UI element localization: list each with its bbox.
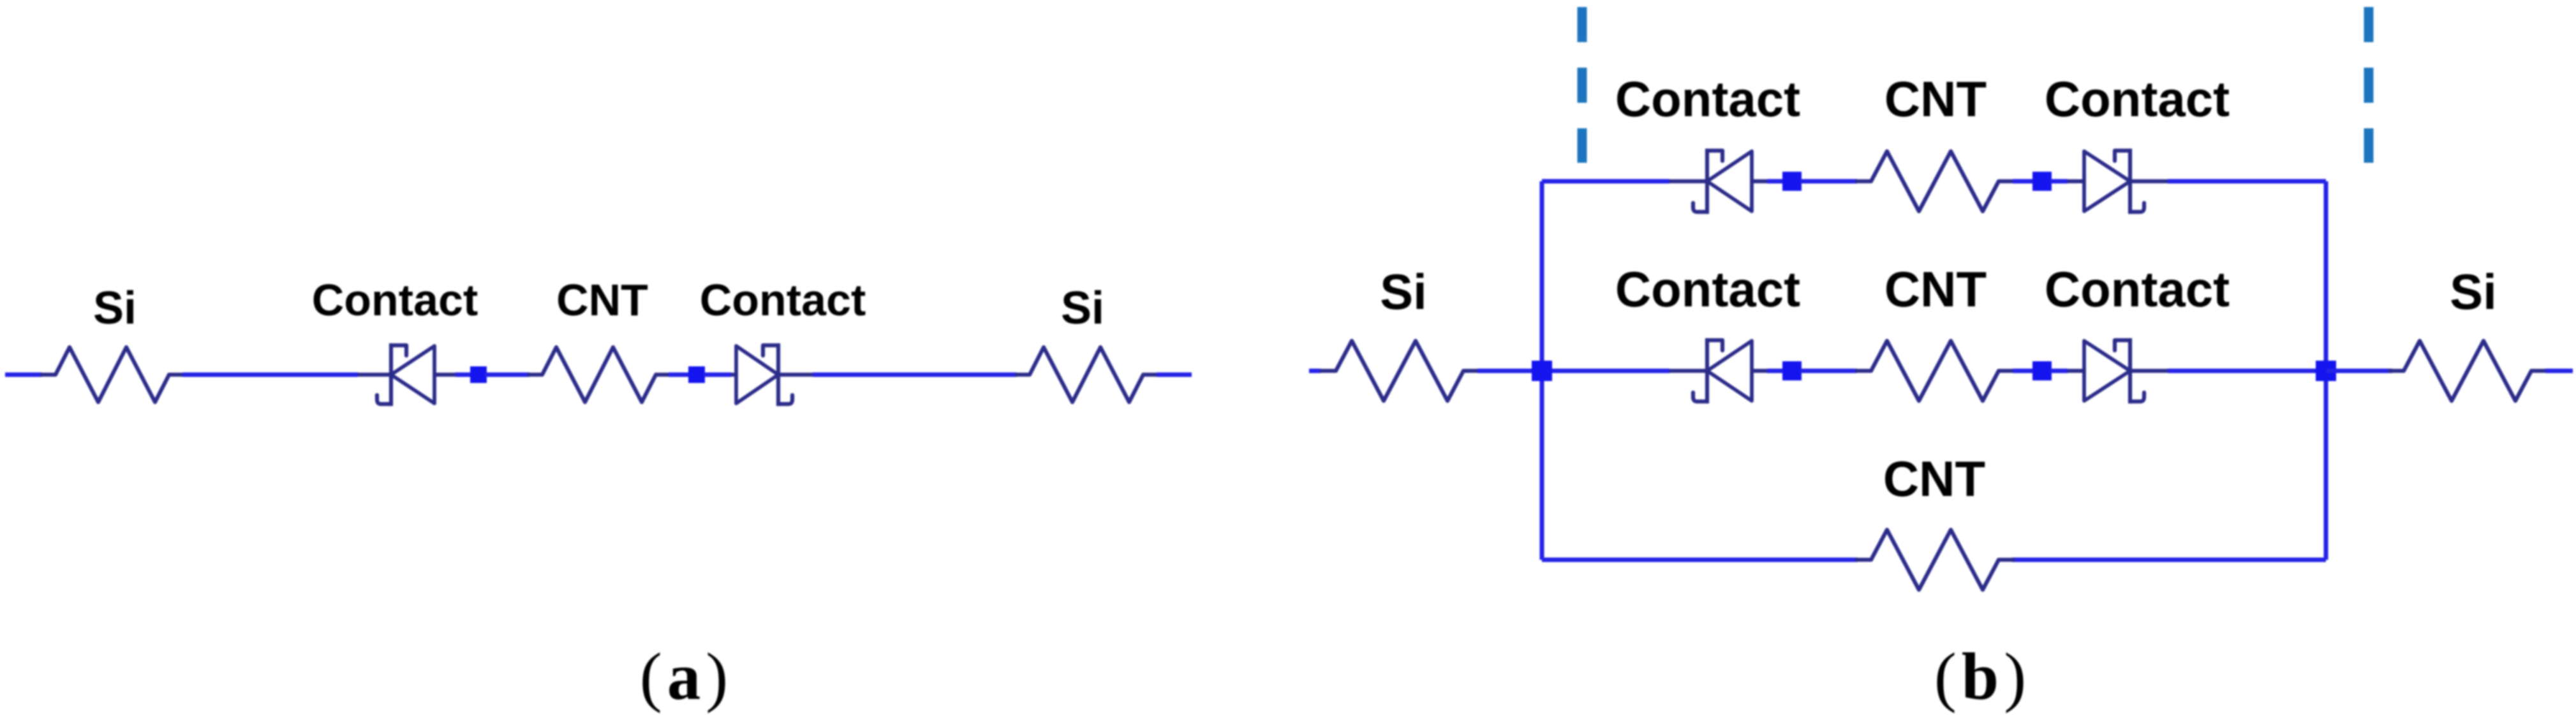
label Si: [93, 283, 137, 334]
label CNT: [1883, 451, 1985, 507]
schottky diode Contact (a) right: [731, 345, 813, 404]
resistor CNT (b) top: [1857, 151, 2013, 211]
label Si: [1061, 283, 1104, 334]
svg-text:(a): (a): [640, 639, 733, 714]
label Contact: [1615, 261, 1800, 317]
node junction left: [1532, 361, 1552, 381]
label Contact: [312, 275, 478, 325]
schottky diode Contact (b) middle-right: [2068, 340, 2168, 401]
wire: [485, 373, 529, 377]
dashed boundary line right: [2364, 7, 2374, 163]
wire bottom branch: [1542, 558, 1858, 562]
label Si: [2450, 264, 2497, 320]
node: [2032, 172, 2052, 191]
wire: [2050, 369, 2068, 373]
resistor Si (a) right: [1017, 347, 1156, 402]
label Contact: [700, 275, 866, 325]
wire: [1767, 179, 1784, 184]
svg-text:Contact: Contact: [700, 275, 866, 325]
wire: [2326, 369, 2392, 373]
svg-text:Contact: Contact: [2045, 71, 2230, 127]
label Si: [1380, 264, 1427, 320]
svg-text:Contact: Contact: [1615, 261, 1800, 317]
svg-text:Si: Si: [1061, 283, 1104, 334]
svg-text:Si: Si: [93, 283, 137, 334]
schottky diode Contact (b) middle-left: [1669, 340, 1767, 401]
wire: [455, 373, 472, 377]
resistor CNT (b) bottom: [1857, 530, 2013, 590]
wire: [669, 373, 690, 377]
svg-text:Si: Si: [1380, 264, 1427, 320]
wire: [2168, 179, 2326, 184]
node junction: [688, 366, 705, 383]
svg-text:Contact: Contact: [312, 275, 478, 325]
svg-text:CNT: CNT: [1884, 261, 1987, 317]
wire: [1800, 369, 1857, 373]
schottky diode Contact (b) top-right: [2068, 151, 2168, 212]
caption (a): [640, 639, 733, 714]
svg-text:Si: Si: [2450, 264, 2497, 320]
wire: [1800, 179, 1857, 184]
wire: [813, 373, 1017, 377]
label CNT: [556, 275, 648, 325]
node: [1782, 172, 1802, 191]
wire: [2013, 369, 2034, 373]
resistor CNT (b) middle: [1857, 341, 2013, 401]
svg-text:Contact: Contact: [2045, 261, 2230, 317]
node junction: [470, 366, 487, 383]
node junction right: [2316, 361, 2336, 381]
wire: [1309, 369, 1321, 373]
wire right vertical: [2324, 181, 2328, 560]
label CNT: [1884, 261, 1987, 317]
svg-text:CNT: CNT: [556, 275, 648, 325]
resistor Si (b) right: [2390, 341, 2545, 401]
svg-text:CNT: CNT: [1884, 71, 1987, 127]
caption (b): [1934, 639, 2031, 714]
wire: [5, 373, 42, 377]
wire: [2013, 179, 2034, 184]
node: [1782, 361, 1802, 380]
schottky diode Contact (a) left: [358, 345, 455, 404]
schottky diode Contact (b) top-left: [1669, 151, 1767, 212]
wire: [1767, 369, 1784, 373]
wire bottom branch right: [2012, 558, 2326, 562]
resistor CNT (a): [529, 347, 669, 402]
label Contact: [2045, 261, 2230, 317]
wire top branch left: [1542, 179, 1669, 184]
node: [2032, 361, 2052, 380]
dashed boundary line left: [1578, 7, 1587, 163]
wire: [1157, 373, 1192, 377]
svg-text:CNT: CNT: [1883, 451, 1985, 507]
wire: [704, 373, 731, 377]
label Contact: [2045, 71, 2230, 127]
wire: [2545, 369, 2573, 373]
wire: [1542, 369, 1669, 373]
wire: [1477, 369, 1542, 373]
wire: [2168, 369, 2326, 373]
svg-text:Contact: Contact: [1615, 71, 1800, 127]
wire: [182, 373, 358, 377]
resistor Si (a) left: [42, 347, 182, 402]
svg-text:(b): (b): [1934, 639, 2031, 714]
resistor Si (b) left: [1322, 341, 1477, 401]
wire: [2050, 179, 2068, 184]
label Contact: [1615, 71, 1800, 127]
label CNT: [1884, 71, 1987, 127]
wire left vertical: [1540, 181, 1544, 560]
